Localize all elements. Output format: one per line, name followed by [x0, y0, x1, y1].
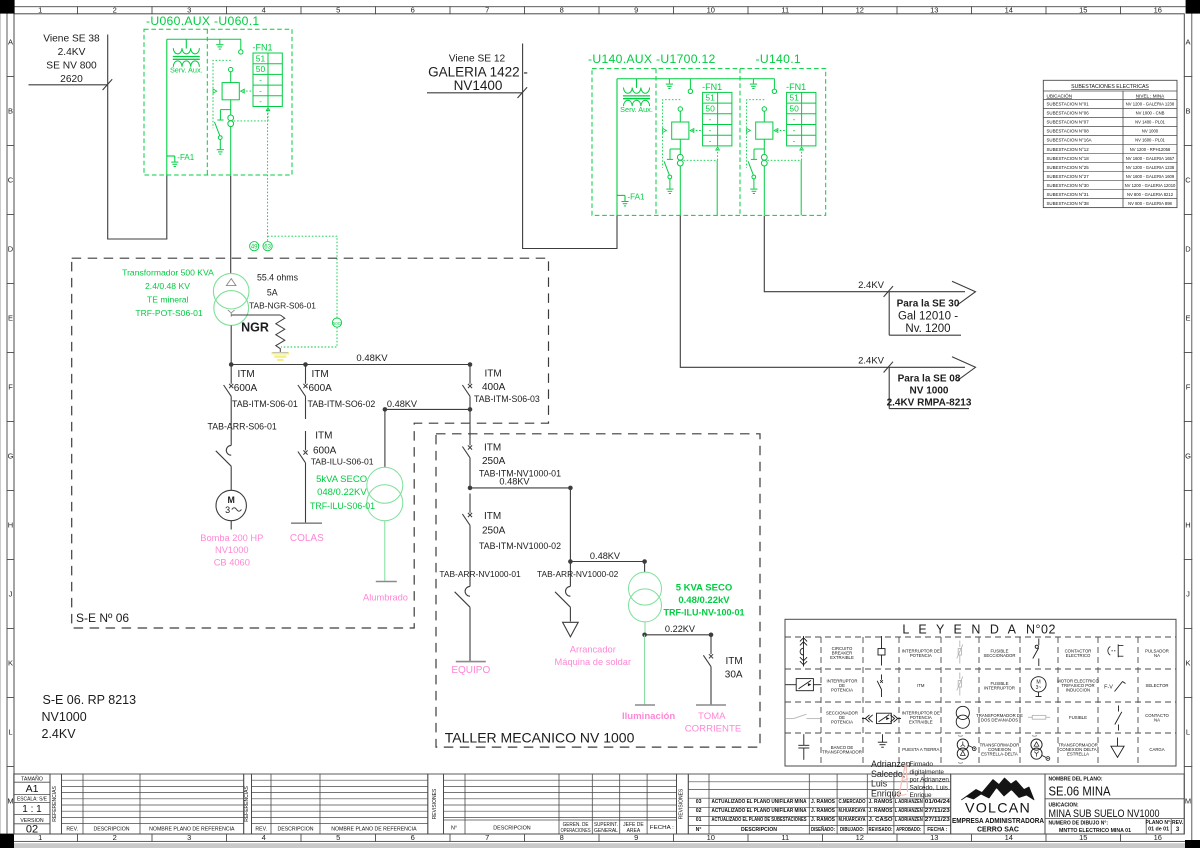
svg-text:-: -	[709, 125, 712, 135]
svg-text:K: K	[8, 659, 13, 668]
svg-text:NV 1000: NV 1000	[1142, 129, 1159, 134]
svg-text:NV1400: NV1400	[454, 78, 503, 93]
svg-text:ITM: ITM	[238, 369, 255, 380]
svg-text:NV1000: NV1000	[215, 545, 249, 555]
svg-text:POTENCIA: POTENCIA	[831, 720, 853, 725]
svg-text:J: J	[1186, 590, 1190, 599]
svg-text:INTERRUPTOR: INTERRUPTOR	[984, 685, 1015, 690]
legend symbol: fusible	[1028, 715, 1050, 719]
svg-text:H: H	[8, 521, 13, 530]
current transformer CT	[677, 154, 683, 166]
svg-text:1: 1	[38, 6, 42, 15]
svg-text:J. RAMOS: J. RAMOS	[869, 808, 894, 814]
svg-text:2.4KV: 2.4KV	[858, 356, 885, 367]
svg-text:SUBESTACION N°18: SUBESTACION N°18	[1047, 156, 1090, 161]
svg-text:TAB-NGR-S06-01: TAB-NGR-S06-01	[249, 300, 316, 310]
motor M 3~ Bomba 200 HP NV1000 CB 4060	[200, 490, 263, 567]
wire: feeder SE12 leader line	[427, 92, 523, 94]
svg-text:J. RAMOS: J. RAMOS	[811, 808, 836, 814]
svg-text:ESTRELLA: ESTRELLA	[1067, 752, 1089, 757]
svg-text:9: 9	[634, 833, 638, 842]
disconnect fixed terminal	[688, 79, 692, 94]
svg-text:30A: 30A	[725, 669, 743, 680]
svg-text:-FN1: -FN1	[702, 82, 722, 92]
svg-text:0.48KV: 0.48KV	[387, 399, 418, 409]
svg-text:F: F	[1186, 383, 1191, 392]
starter TAB-ARR-S06-01	[208, 420, 277, 490]
junction	[568, 559, 573, 564]
svg-text:TAB-ITM-NV1000-02: TAB-ITM-NV1000-02	[479, 541, 561, 551]
svg-text:NV 1200 - GALERIA 1238: NV 1200 - GALERIA 1238	[1126, 165, 1175, 170]
svg-text:APROBADO:: APROBADO:	[896, 827, 921, 833]
wire: lighting circuit (green)	[384, 521, 386, 582]
circuit breaker (drawout) with trip linkage	[222, 67, 239, 115]
svg-text:TRANSFORMADOR: TRANSFORMADOR	[822, 749, 862, 754]
svg-text:8: 8	[560, 6, 564, 15]
svg-text:Serv. Aux.: Serv. Aux.	[620, 105, 653, 114]
svg-text:ACTUALIZADO EL PLANO UNIFIL: ACTUALIZADO EL PLANO UNIFILAR MINA	[712, 799, 807, 805]
wire: aux feeder riser (green)	[166, 39, 168, 176]
svg-text:51: 51	[789, 93, 799, 103]
svg-text:L: L	[1186, 728, 1190, 737]
bus 0.48KV of S-E 06	[231, 353, 470, 365]
legend symbol: interruptor de potencia (square)	[878, 636, 885, 666]
svg-text:51: 51	[705, 93, 715, 103]
svg-text:-FA1: -FA1	[628, 192, 645, 201]
svg-text:SUBESTACION N°38: SUBESTACION N°38	[1047, 201, 1090, 206]
svg-text:L ADRIANZEN: L ADRIANZEN	[895, 799, 923, 805]
svg-text:M.HUARCAYA: M.HUARCAYA	[839, 817, 866, 823]
svg-text:6: 6	[411, 833, 415, 842]
svg-text:4: 4	[262, 833, 266, 842]
legend symbol: fusible seccionador	[957, 641, 963, 664]
svg-text:E: E	[1185, 314, 1190, 323]
phase slash	[884, 286, 893, 297]
substation S-E N° 06 enclosure (black dashed)	[72, 258, 549, 628]
junction	[642, 633, 647, 638]
circuit breaker (drawout) with trip linkage	[756, 107, 773, 155]
svg-text:A1: A1	[26, 783, 39, 795]
wire: transformer to 0.22KV bus (green)	[644, 622, 646, 635]
svg-text:PUESTA A TIERRA: PUESTA A TIERRA	[902, 747, 939, 752]
legend symbol: fusible interruptor	[957, 673, 963, 696]
svg-text:Luis: Luis	[871, 779, 888, 789]
svg-text:Para la SE 08: Para la SE 08	[898, 374, 961, 385]
breaker ITM 250A TAB-ITM-NV1000-02	[462, 494, 561, 561]
svg-text:digitalmente: digitalmente	[910, 769, 945, 776]
svg-text:FECHA :: FECHA :	[927, 827, 947, 833]
svg-text:-U140.AUX -U1700.12: -U140.AUX -U1700.12	[588, 52, 716, 66]
svg-text:SUBESTACION N°30: SUBESTACION N°30	[1047, 183, 1090, 188]
legend symbol: circuito breaker extraible	[800, 636, 807, 667]
svg-text:TAB-ITM-S06-03: TAB-ITM-S06-03	[474, 394, 540, 404]
svg-text:J. RAMOS: J. RAMOS	[811, 799, 836, 805]
svg-text:SELECTOR: SELECTOR	[1145, 683, 1168, 688]
svg-text:J: J	[9, 590, 13, 599]
svg-text:9: 9	[634, 6, 638, 15]
svg-text:2.4KV RMPA-8213: 2.4KV RMPA-8213	[887, 397, 972, 408]
svg-text:EQUIPO: EQUIPO	[451, 665, 490, 676]
svg-text:15: 15	[1079, 833, 1087, 842]
wire: bay main line below CT (green)	[763, 166, 765, 215]
svg-text:N°: N°	[451, 826, 457, 832]
svg-text:SUBESTACION N°12: SUBESTACION N°12	[1047, 147, 1090, 152]
junction	[303, 362, 308, 367]
junction	[383, 407, 388, 412]
protection relay table -FN1 (51/50)	[253, 43, 283, 107]
dotted branch to relay 50G and NGR ground (green)	[268, 236, 337, 318]
svg-text:TRF-ILU-NV-100-01: TRF-ILU-NV-100-01	[663, 607, 744, 617]
svg-text:UBICACIÓN: UBICACIÓN	[1047, 92, 1073, 98]
svg-text:EXTRAIBLE: EXTRAIBLE	[830, 655, 854, 660]
svg-text:27/11/23: 27/11/23	[925, 808, 950, 814]
wire: CT secondary drop bay U140.1 (green)	[800, 160, 802, 215]
ground symbol on bus	[666, 79, 673, 89]
earthing switch with ground	[215, 110, 231, 155]
svg-text:ACTUALIZADO EL PLANO UNIFIL: ACTUALIZADO EL PLANO UNIFILAR MINA	[712, 808, 807, 814]
wire: aux feeder riser (green)	[616, 79, 618, 216]
svg-text:50: 50	[789, 103, 799, 113]
svg-text:TAB-ITM-S06-01: TAB-ITM-S06-01	[232, 399, 298, 409]
breaker ITM 400A TAB-ITM-S06-03	[462, 365, 540, 410]
legend symbol: motor electrico	[1031, 677, 1046, 697]
svg-text:SECCIONADOR: SECCIONADOR	[984, 653, 1016, 658]
svg-text:M: M	[1185, 797, 1191, 806]
junction	[229, 362, 234, 367]
svg-text:REV.: REV.	[255, 827, 267, 833]
svg-text:-: -	[709, 136, 712, 146]
svg-text:Serv. Aux.: Serv. Aux.	[170, 66, 203, 75]
svg-text:-: -	[793, 114, 796, 124]
svg-text:55.4 ohms: 55.4 ohms	[257, 273, 299, 283]
svg-text:2.4KV: 2.4KV	[858, 280, 885, 291]
svg-text:SUBESTACION N°07: SUBESTACION N°07	[1047, 120, 1090, 125]
svg-text:-U060.AUX -U060.1: -U060.AUX -U060.1	[146, 14, 259, 28]
wire: feeder SE38 down/right/up to -U060.AUX	[108, 35, 167, 240]
workshop TALLER MECANICO NV 1000 enclosure (black dashed)	[436, 434, 760, 747]
junction	[568, 486, 573, 491]
wire: feeder U140.1 to SE 30	[764, 216, 965, 292]
svg-text:SUBESTACION N°06: SUBESTACION N°06	[1047, 111, 1090, 116]
legend symbol: transformador delta estrella	[1031, 736, 1050, 761]
svg-text:NOMBRE PLANO DE REFERENCIA: NOMBRE PLANO DE REFERENCIA	[331, 827, 417, 833]
legend symbol: puesta a tierra	[878, 734, 887, 747]
svg-text:REVISADO:: REVISADO:	[869, 827, 893, 833]
legend symbol: transformador de dos devanados	[956, 706, 969, 728]
svg-text:G: G	[8, 452, 14, 461]
svg-text:NV 1600 - GALERIA 1657: NV 1600 - GALERIA 1657	[1126, 156, 1175, 161]
svg-text:J. CASO: J. CASO	[869, 817, 893, 823]
svg-text:F-V: F-V	[1104, 684, 1113, 690]
svg-text:NV 800 - GALERIA 8212: NV 800 - GALERIA 8212	[1127, 192, 1174, 197]
legend LEYENDA N°02	[785, 619, 1176, 766]
svg-text:7: 7	[485, 6, 489, 15]
svg-text:SUBESTACION N°16A: SUBESTACION N°16A	[1047, 138, 1092, 143]
svg-text:TAMAÑO: TAMAÑO	[21, 775, 43, 782]
bus 0.48KV to lighting transformer	[570, 551, 644, 562]
dotted CT wiring to relays 49 63 (green)	[267, 110, 269, 241]
svg-text:DESCRIPCION: DESCRIPCION	[93, 827, 129, 833]
svg-text:INDUCCION: INDUCCION	[1066, 688, 1090, 693]
svg-text:250A: 250A	[482, 526, 506, 537]
svg-text:TAB-ARR-NV1000-02: TAB-ARR-NV1000-02	[537, 569, 619, 579]
dotted link CB to relay	[774, 129, 786, 133]
svg-text:M.HUARCAYA: M.HUARCAYA	[839, 808, 866, 814]
legend symbol: interruptor de potencia extraible	[862, 713, 901, 723]
svg-text:TALLER MECANICO NV 1000: TALLER MECANICO NV 1000	[445, 729, 635, 745]
svg-text:1 : 1: 1 : 1	[22, 804, 42, 815]
dotted link CT to relay with up arrow	[767, 147, 803, 160]
svg-text:Transformador 500 KVA: Transformador 500 KVA	[122, 268, 214, 278]
label transformer 500 KVA (green)	[122, 268, 214, 319]
svg-text:10: 10	[707, 6, 715, 15]
current transformer CT	[228, 115, 234, 127]
wire: top bus in -U140 (green)	[617, 78, 775, 80]
svg-text:Viene SE 12: Viene SE 12	[449, 54, 506, 65]
breaker ITM 600A TAB-ITM-SO6-02	[298, 365, 375, 420]
svg-text:TAB-ITM-SO6-02: TAB-ITM-SO6-02	[308, 399, 376, 409]
phase slash on feeder SE12	[518, 87, 528, 98]
svg-text:Firmado: Firmado	[910, 761, 934, 768]
wire: bay main line below CT (green)	[679, 166, 681, 215]
svg-text:Salcedo,: Salcedo,	[871, 769, 905, 779]
svg-text:TRF-POT-S06-01: TRF-POT-S06-01	[135, 308, 203, 318]
svg-text:10: 10	[707, 833, 715, 842]
svg-text:02: 02	[696, 808, 702, 814]
svg-text:D: D	[1185, 245, 1191, 254]
wire: feeder U1700.12 to SE 08	[680, 216, 965, 367]
svg-text:-: -	[793, 136, 796, 146]
wire: feeder SE38 leader line	[29, 84, 108, 86]
wire: 0.48KV branch to lighting transformer	[385, 399, 470, 409]
dotted link CB to relay	[241, 89, 253, 93]
svg-text:D: D	[8, 245, 14, 254]
relay 63	[263, 242, 272, 251]
legend symbol: interruptor de potencia (caja)	[786, 679, 822, 691]
arrowhead outgoing feeder	[952, 357, 976, 381]
breaker ITM 30A	[703, 635, 743, 705]
svg-text:REV.: REV.	[66, 827, 78, 833]
breaker ITM 600A TAB-ITM-S06-01	[224, 365, 298, 421]
svg-text:ITM: ITM	[726, 656, 743, 667]
load EQUIPO	[451, 662, 490, 677]
wire: branch to welder starter	[569, 488, 571, 587]
svg-text:TOMA: TOMA	[698, 711, 726, 722]
protection relay table -FN1 (51/50)	[702, 82, 732, 146]
trip linkage dotted path with arrow	[747, 100, 765, 168]
svg-text:Máquina de soldar: Máquina de soldar	[555, 657, 632, 667]
svg-text:CORRIENTE: CORRIENTE	[685, 723, 742, 734]
legend symbol: transformador estrella-delta	[957, 736, 976, 764]
svg-text:SE NV 800: SE NV 800	[46, 61, 97, 72]
svg-text:SUBESTACION N°01: SUBESTACION N°01	[1047, 102, 1090, 107]
svg-text:01/04/24: 01/04/24	[925, 799, 950, 805]
disconnect fixed terminal	[239, 39, 243, 54]
load Iluminación	[622, 705, 675, 722]
svg-text:ITM: ITM	[484, 511, 501, 522]
svg-text:600A: 600A	[234, 383, 258, 394]
svg-text:2.4/0.48 KV: 2.4/0.48 KV	[145, 281, 190, 291]
svg-text:COLAS: COLAS	[290, 533, 324, 544]
svg-text:EXTRAIBLE: EXTRAIBLE	[909, 720, 933, 725]
wire: -U060.1 feeder leaving box	[230, 176, 232, 274]
svg-text:NV 1200 - GALERIA 12010: NV 1200 - GALERIA 12010	[1125, 183, 1176, 188]
NGR ground (yellow highlight)	[272, 349, 290, 360]
svg-text:CERRO SAC: CERRO SAC	[977, 827, 1019, 834]
junction	[642, 559, 647, 564]
svg-text:3~: 3~	[1036, 685, 1042, 691]
svg-text:Alumbrado: Alumbrado	[363, 593, 408, 603]
svg-text:NV 1600 - PL01: NV 1600 - PL01	[1135, 138, 1165, 143]
svg-text:NA: NA	[1154, 653, 1160, 658]
neutral grounding resistor NGR 55.4 ohms 5A TAB-NGR-S06-01	[231, 273, 316, 350]
svg-text:C: C	[1185, 176, 1191, 185]
transformer Serv. Aux.	[620, 79, 653, 114]
svg-text:2620: 2620	[60, 74, 83, 85]
svg-text:03: 03	[696, 799, 702, 805]
svg-text:12: 12	[856, 6, 864, 15]
svg-text:VOLCAN: VOLCAN	[965, 800, 1031, 816]
svg-text:50: 50	[705, 103, 715, 113]
svg-text:ITM: ITM	[485, 368, 502, 379]
junction	[468, 407, 473, 412]
svg-text:TRF-ILU-S06-01: TRF-ILU-S06-01	[310, 501, 375, 511]
svg-text:OPERACIONES: OPERACIONES	[561, 828, 592, 834]
trip linkage dotted path with arrow	[663, 100, 681, 168]
svg-text:C.MERCADO: C.MERCADO	[839, 799, 866, 805]
svg-text:S-E Nº 06: S-E Nº 06	[76, 611, 129, 625]
table SUBESTACIONES ELECTRICAS	[1043, 80, 1177, 207]
svg-text:FECHA :: FECHA :	[650, 825, 674, 831]
svg-text:ITM: ITM	[315, 430, 332, 441]
svg-text:S-E 06. RP 8213: S-E 06. RP 8213	[43, 693, 137, 707]
svg-text:M: M	[7, 797, 13, 806]
title block	[14, 774, 1184, 836]
svg-text:2.4KV: 2.4KV	[42, 727, 77, 741]
svg-text:-: -	[259, 85, 262, 95]
svg-text:DISEÑADO:: DISEÑADO:	[811, 826, 835, 833]
legend symbol: pulsador NA	[1108, 644, 1124, 657]
svg-text:TAB-ILU-S06-01: TAB-ILU-S06-01	[311, 457, 374, 467]
earthing switch with ground	[748, 149, 764, 194]
svg-text:02: 02	[26, 824, 38, 836]
legend symbol: seccionador de potencia	[786, 714, 820, 718]
svg-text:-U140.1: -U140.1	[756, 52, 801, 66]
svg-text:0.48KV: 0.48KV	[356, 353, 388, 364]
svg-text:NIVEL : MINA: NIVEL : MINA	[1136, 93, 1165, 98]
node: incoming feeder Viene SE 38 2.4KV SE NV 800 2620	[43, 34, 100, 86]
breaker ITM 600A TAB-ILU-S06-01	[298, 430, 374, 523]
svg-text:H: H	[1185, 521, 1190, 530]
svg-text:5 KVA SECO: 5 KVA SECO	[676, 583, 733, 594]
switchgear -U140.AUX / -U1700.12 / -U140.1 enclosure (green dashed)	[588, 52, 826, 215]
legend symbol: banco de transformador	[798, 734, 809, 760]
load arrow Arrancador Máquina de soldar	[555, 622, 632, 667]
junction	[468, 486, 473, 491]
junction	[468, 362, 473, 367]
dotted link CB to relay	[690, 129, 702, 133]
label: S-E 06. RP 8213 NV1000 2.4KV	[42, 693, 137, 741]
phase slash	[884, 362, 893, 373]
svg-text:SUBESTACION N°31: SUBESTACION N°31	[1047, 192, 1090, 197]
svg-text:Arrancador: Arrancador	[570, 645, 616, 655]
svg-text:NV 1200 - RPH12056: NV 1200 - RPH12056	[1130, 147, 1171, 152]
svg-text:13: 13	[930, 833, 938, 842]
switchgear -U060.AUX / -U060.1 enclosure (green dashed)	[144, 14, 292, 175]
svg-text:400A: 400A	[482, 382, 506, 393]
ground symbol on bus	[216, 39, 223, 49]
svg-text:14: 14	[1005, 833, 1013, 842]
legend symbol: contactor electrico	[1033, 639, 1039, 667]
svg-text:NOMBRE PLANO DE REFERENCIA: NOMBRE PLANO DE REFERENCIA	[149, 827, 235, 833]
ground symbol on bus	[750, 79, 757, 89]
bus 0.22KV	[645, 624, 711, 635]
svg-text:SUBESTACIONES ELECTRICAS: SUBESTACIONES ELECTRICAS	[1071, 84, 1149, 90]
svg-text:N°: N°	[696, 827, 702, 833]
svg-text:15: 15	[1079, 6, 1087, 15]
svg-text:2: 2	[113, 833, 117, 842]
svg-text:SUBESTACION N°08: SUBESTACION N°08	[1047, 129, 1090, 134]
wire: feeder into taller	[469, 409, 471, 430]
earthing switch with ground	[664, 149, 680, 194]
wire: to transformer TRF-ILU-NV-100-01	[644, 562, 646, 573]
svg-text:PLANO N°:: PLANO N°:	[1146, 820, 1172, 826]
svg-text:NOMBRE DEL PLANO:: NOMBRE DEL PLANO:	[1049, 777, 1103, 783]
trip linkage dotted path with arrow	[213, 60, 231, 128]
svg-text:B: B	[8, 107, 13, 116]
svg-text:REV.: REV.	[1172, 820, 1184, 826]
svg-text:CARGA: CARGA	[1149, 747, 1164, 752]
svg-text:6: 6	[411, 6, 415, 15]
svg-text:NV 1600 - GALERIA 1609: NV 1600 - GALERIA 1609	[1126, 174, 1175, 179]
svg-text:TAB-ARR-NV1000-01: TAB-ARR-NV1000-01	[439, 569, 521, 579]
svg-text:-: -	[259, 75, 262, 85]
svg-text:Para la SE 30: Para la SE 30	[897, 299, 960, 310]
arrowhead outgoing feeder	[952, 281, 976, 305]
svg-text:SUBESTACION N°27: SUBESTACION N°27	[1047, 174, 1090, 179]
wire: bay main line below CT (green)	[230, 127, 232, 176]
svg-text:-FA1: -FA1	[177, 153, 194, 162]
svg-text:Gal 12010 -: Gal 12010 -	[898, 311, 958, 323]
svg-text:Bomba 200 HP: Bomba 200 HP	[200, 533, 263, 543]
svg-text:7: 7	[485, 833, 489, 842]
svg-text:01 de 01: 01 de 01	[1148, 827, 1169, 833]
dotted link CT to relay with up arrow	[683, 147, 719, 160]
svg-text:REVISIONES: REVISIONES	[679, 788, 685, 819]
svg-text:5kVA SECO: 5kVA SECO	[316, 474, 367, 485]
svg-text:NV 800 - GALERIA 898: NV 800 - GALERIA 898	[1128, 201, 1172, 206]
svg-text:L ADRIANZEN: L ADRIANZEN	[895, 808, 923, 814]
wire: CT secondary drop bay U1700.12 (green)	[716, 160, 718, 215]
svg-text:ESCALA: S/E: ESCALA: S/E	[17, 797, 48, 803]
svg-text:NV 1000 - CNB: NV 1000 - CNB	[1136, 111, 1165, 116]
svg-text:0.22KV: 0.22KV	[665, 624, 696, 634]
transformer Serv. Aux.	[170, 39, 203, 74]
svg-text:2: 2	[113, 6, 117, 15]
svg-text:POTENCIA: POTENCIA	[910, 653, 932, 658]
svg-text:DIBUJADO:: DIBUJADO:	[840, 827, 864, 833]
svg-text:-: -	[259, 96, 262, 106]
svg-text:M: M	[228, 495, 235, 505]
wire: top bus in -U060 (green)	[167, 38, 241, 40]
svg-text:F: F	[8, 383, 13, 392]
svg-text:ITM: ITM	[312, 369, 329, 380]
transformer TRF-ILU-S06-01 5kVA SECO 048/0.22KV	[310, 467, 403, 520]
svg-text:MINA SUB SUELO NV1000: MINA SUB SUELO NV1000	[1049, 808, 1160, 820]
junction	[709, 633, 714, 638]
svg-text:DESCRIPCION: DESCRIPCION	[741, 827, 777, 833]
circuit breaker (drawout) with trip linkage	[672, 107, 689, 155]
